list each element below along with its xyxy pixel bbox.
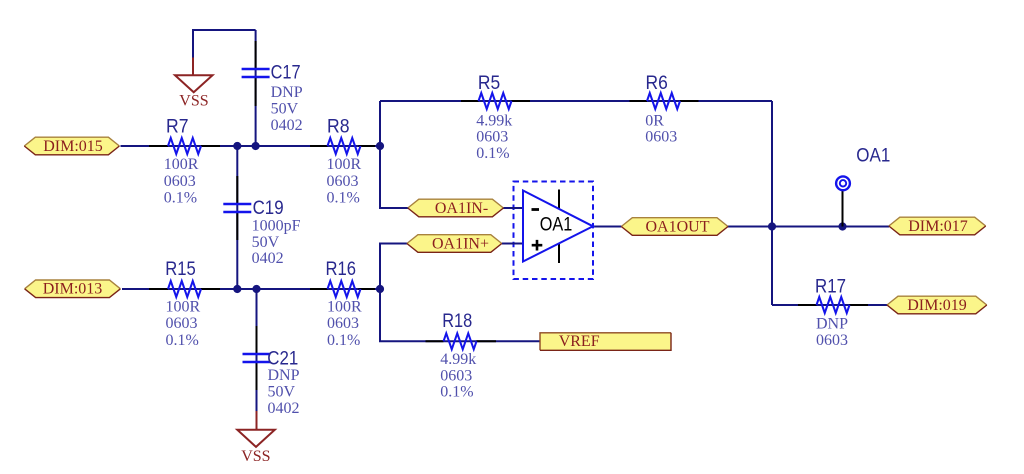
wire vertical at x380 top (node to feedback and OA1IN-) — [380, 101, 409, 208]
svg-text:R5: R5 — [478, 72, 500, 94]
resistor R5 — [479, 93, 512, 109]
op-amp U1 triangle — [523, 191, 593, 262]
port OA1IN+ — [407, 235, 502, 253]
svg-text:0603: 0603 — [327, 173, 359, 190]
op-amp U1 input pin wires — [502, 208, 523, 244]
junction node row2-C21 — [252, 285, 260, 293]
svg-text:1000pF: 1000pF — [252, 217, 301, 234]
resistor R15 pins — [149, 288, 220, 290]
junction node output-testpoint — [838, 222, 846, 230]
capacitor C17 — [242, 69, 270, 77]
ground VSS bottom stem — [256, 411, 258, 430]
op-amp U1 power pin top — [558, 190, 560, 210]
wire top-left horizontal to VSS — [193, 30, 256, 58]
svg-text:R6: R6 — [646, 72, 668, 94]
resistor R5 pins — [461, 100, 530, 102]
svg-text:DNP: DNP — [271, 84, 303, 101]
svg-text:OA1OUT: OA1OUT — [646, 218, 710, 235]
wire row2 horizontal — [122, 288, 380, 290]
resistor R8 pins — [310, 145, 375, 147]
svg-text:VSS: VSS — [241, 448, 270, 465]
svg-text:R15: R15 — [165, 258, 196, 280]
port DIM:017 — [889, 217, 986, 235]
resistor R17 pins — [798, 304, 868, 306]
svg-text:0603: 0603 — [816, 332, 848, 349]
capacitor C19 pins — [236, 176, 238, 240]
svg-text:50V: 50V — [268, 383, 296, 400]
svg-text:0.1%: 0.1% — [164, 190, 197, 207]
wire right vertical — [771, 101, 773, 305]
svg-text:0603: 0603 — [164, 173, 196, 190]
resistor R6 pins — [630, 100, 699, 102]
svg-text:R18: R18 — [442, 310, 472, 332]
capacitor C19 — [223, 204, 251, 212]
wire vertical at x380 down to R18 row — [380, 289, 540, 341]
resistor R17 — [817, 297, 850, 313]
junction node output-right vertical — [768, 222, 776, 230]
svg-text:100R: 100R — [327, 299, 362, 316]
svg-text:0603: 0603 — [327, 315, 359, 332]
wire C19 branch vertical — [236, 146, 238, 289]
svg-text:R8: R8 — [327, 116, 350, 138]
svg-text:OA1IN-: OA1IN- — [435, 200, 488, 217]
resistor R7 pins — [149, 145, 220, 147]
resistor R8 — [328, 138, 361, 154]
junction node row1-R8 out — [376, 142, 384, 150]
svg-text:0603: 0603 — [166, 315, 198, 332]
svg-text:C17: C17 — [271, 62, 301, 84]
svg-text:0402: 0402 — [252, 250, 284, 267]
svg-text:0.1%: 0.1% — [327, 332, 360, 349]
svg-text:OA1: OA1 — [540, 214, 573, 236]
junction node row1-C17 — [252, 142, 260, 150]
wire top feedback horizontal — [380, 100, 772, 102]
junction node row2-R16 out — [376, 285, 384, 293]
resistor R6 — [647, 93, 680, 109]
svg-text:0402: 0402 — [271, 117, 303, 134]
svg-text:DIM:019: DIM:019 — [907, 297, 967, 314]
resistor R16 pins — [310, 288, 375, 290]
ground VSS top stem — [192, 58, 194, 76]
svg-text:0R: 0R — [645, 112, 664, 129]
capacitor C21 pins — [256, 326, 258, 390]
svg-text:100R: 100R — [164, 156, 199, 173]
ground VSS bottom — [237, 430, 274, 447]
junction node row2-C19 — [233, 285, 241, 293]
port DIM:019 — [887, 296, 987, 314]
svg-text:0603: 0603 — [476, 129, 508, 146]
resistor R7 — [168, 138, 201, 154]
svg-text:0.1%: 0.1% — [476, 145, 509, 162]
capacitor C21 — [243, 354, 271, 362]
port OA1OUT — [621, 218, 728, 236]
op-amp U1 plus label — [532, 240, 543, 251]
wire row1 horizontal — [121, 145, 381, 147]
wire R17 row — [772, 304, 887, 306]
svg-text:OA1IN+: OA1IN+ — [432, 235, 489, 252]
wire C17 branch vertical — [255, 30, 257, 146]
svg-text:0402: 0402 — [268, 400, 300, 417]
svg-text:VREF: VREF — [559, 333, 600, 350]
port OA1IN- — [408, 199, 504, 217]
port DIM:013 — [25, 280, 121, 298]
svg-text:0.1%: 0.1% — [166, 332, 199, 349]
wire vertical at x380 to OA1IN+ — [380, 244, 408, 290]
capacitor C17 pins — [255, 41, 257, 106]
testpoint OA1 — [836, 176, 850, 190]
svg-text:50V: 50V — [271, 100, 299, 117]
svg-text:DIM:015: DIM:015 — [43, 138, 103, 155]
wire C21 branch vertical — [256, 289, 258, 411]
svg-text:0.1%: 0.1% — [327, 190, 360, 207]
svg-text:DIM:013: DIM:013 — [43, 281, 103, 298]
svg-text:100R: 100R — [166, 299, 201, 316]
port DIM:015 — [24, 137, 119, 155]
svg-text:0603: 0603 — [645, 129, 677, 146]
svg-text:R16: R16 — [326, 258, 357, 280]
svg-text:OA1: OA1 — [856, 144, 890, 166]
svg-text:DNP: DNP — [816, 316, 848, 333]
svg-text:R7: R7 — [166, 116, 189, 138]
net label VREF — [540, 333, 671, 351]
resistor R18 pins — [426, 340, 497, 342]
op-amp U1 power pin bottom — [558, 244, 560, 264]
resistor R18 — [444, 333, 477, 349]
svg-text:4.99k: 4.99k — [476, 112, 512, 129]
op-amp U1 dashed box — [514, 182, 594, 280]
svg-text:DIM:017: DIM:017 — [908, 218, 968, 235]
svg-text:C19: C19 — [253, 197, 284, 219]
svg-text:DNP: DNP — [268, 367, 300, 384]
svg-text:R17: R17 — [815, 276, 846, 298]
junction node row1-C19 — [233, 142, 241, 150]
testpoint OA1 pin — [842, 190, 844, 227]
ground VSS top — [175, 75, 213, 92]
svg-text:4.99k: 4.99k — [440, 351, 476, 368]
svg-text:50V: 50V — [252, 234, 280, 251]
resistor R16 — [328, 281, 361, 297]
wire opamp output row — [592, 226, 889, 228]
svg-text:0603: 0603 — [440, 367, 472, 384]
svg-text:VSS: VSS — [179, 92, 208, 109]
resistor R15 — [168, 281, 201, 297]
op-amp U1 minus label — [532, 208, 540, 211]
svg-text:0.1%: 0.1% — [440, 384, 473, 401]
svg-text:100R: 100R — [327, 156, 362, 173]
